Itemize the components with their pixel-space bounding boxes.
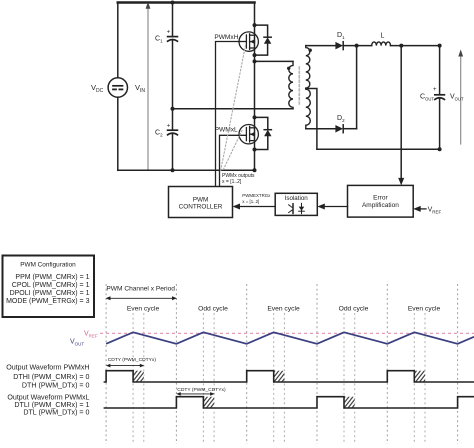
node Cout top junction <box>438 44 442 48</box>
svg-text:C1: C1 <box>155 36 163 44</box>
wire L to Cout <box>391 45 440 47</box>
node PWMxH drain junction <box>253 23 257 27</box>
waveform VOUT triangle (blue) <box>106 332 474 344</box>
node bottom-cap junction <box>171 168 175 172</box>
svg-text:x = [1..2]: x = [1..2] <box>242 199 259 204</box>
svg-text:VDC: VDC <box>91 83 104 94</box>
svg-text:COUT: COUT <box>420 94 434 102</box>
node top-cap junction <box>171 1 175 5</box>
wire bottom rail <box>118 169 255 171</box>
wire primary bottom to cap midpoint <box>173 108 294 110</box>
svg-text:CONTROLLER: CONTROLLER <box>179 204 223 211</box>
diode body D-H <box>255 25 272 55</box>
wire Cout upper <box>439 46 441 95</box>
wire right rail <box>254 3 256 171</box>
block PWM Configuration <box>3 256 95 318</box>
svg-text:VIN: VIN <box>135 83 145 94</box>
svg-text:MODE (PWM_ETRGx) = 3: MODE (PWM_ETRGx) = 3 <box>6 298 90 305</box>
svg-text:Amplification: Amplification <box>362 202 399 209</box>
svg-text:Odd cycle: Odd cycle <box>339 305 369 312</box>
svg-text:PWMxL: PWMxL <box>215 127 238 134</box>
wire error amp to isolation <box>323 206 348 208</box>
capacitor C2 <box>168 130 178 135</box>
node PWMxL drain junction <box>253 115 257 119</box>
svg-text:PWMEXTRGx: PWMEXTRGx <box>242 193 271 198</box>
line VREF dashed pink <box>100 332 474 334</box>
wire left rail lower (VDC to bottom) <box>117 97 119 170</box>
capacitor C1 <box>168 37 178 42</box>
svg-text:C2: C2 <box>155 130 163 138</box>
svg-text:CDTY (PWM_CDTYx): CDTY (PWM_CDTYx) <box>108 357 157 363</box>
hatch region row1 cycle1 <box>133 371 144 382</box>
capacitor COUT <box>435 95 445 100</box>
wire D1 to L <box>343 45 372 47</box>
callout dotted line lower <box>223 131 243 172</box>
wire between C1 and C2 <box>172 40 174 130</box>
wire isolation to pwm <box>239 206 276 208</box>
svg-text:PWM Channel x Period: PWM Channel x Period <box>106 286 175 293</box>
node feedback junction <box>399 44 403 48</box>
wire feedback to error amp <box>400 46 402 180</box>
node switch node <box>253 59 257 63</box>
svg-text:+: + <box>167 30 171 36</box>
hatch region row2 cycle2 <box>203 397 214 408</box>
transistor Q2 PWMxL mosfet <box>239 125 258 144</box>
svg-text:VOUT: VOUT <box>450 94 464 102</box>
transistor Q1 PWMxH mosfet <box>239 32 258 51</box>
svg-text:D1: D1 <box>337 32 345 40</box>
wire rectifier join vertical <box>356 46 358 129</box>
node capacitor midpoint <box>171 107 175 111</box>
wire C2 to bottom rail <box>172 134 174 171</box>
svg-text:Error: Error <box>373 195 388 202</box>
arrow CDTY row2 <box>178 393 213 395</box>
block PWM CONTROLLER <box>169 187 233 218</box>
wire secondary top to D1 <box>306 45 336 47</box>
voltage source VDC <box>108 78 127 97</box>
arrow CDTY row1 <box>108 365 143 367</box>
waveform PWMxL <box>104 397 474 408</box>
svg-text:DPOLI (PWM_CMRx) = 1: DPOLI (PWM_CMRx) = 1 <box>10 290 90 297</box>
wire switch node to primary <box>255 60 294 62</box>
arrow VOUT (gray) <box>460 55 462 144</box>
callout dotted line upper <box>221 46 246 172</box>
svg-text:x = [1..2]: x = [1..2] <box>222 179 242 185</box>
svg-text:PWM: PWM <box>193 197 209 204</box>
wire left rail upper (VDC to top) <box>117 3 119 78</box>
hatch region row1 cycle3 <box>274 371 285 382</box>
transformer core <box>298 67 300 104</box>
node PWMxH source junction <box>253 53 257 57</box>
waveform PWMxH <box>104 371 474 382</box>
wire VREF input <box>419 208 426 210</box>
wire secondary bottom to D2 <box>306 128 336 130</box>
block Error Amplification <box>348 185 414 217</box>
inductor L <box>372 42 391 46</box>
wire top rail <box>118 1 255 4</box>
grid dashed verticals <box>106 284 458 444</box>
svg-text:CPOL (PWM_CMRx) = 1: CPOL (PWM_CMRx) = 1 <box>12 282 90 289</box>
svg-text:PWMx outputs: PWMx outputs <box>222 173 255 179</box>
svg-text:Odd cycle: Odd cycle <box>198 305 228 312</box>
optocoupler glyph <box>289 203 305 213</box>
svg-text:Even cycle: Even cycle <box>267 305 300 312</box>
node bottom-right junction <box>253 168 257 172</box>
wire output return rail <box>317 148 440 150</box>
node secondary phase dot <box>309 49 312 52</box>
wire PWMxL gate <box>220 135 247 186</box>
svg-text:Isolation: Isolation <box>285 195 309 202</box>
node primary phase dot <box>287 67 290 70</box>
block Isolation <box>275 193 317 215</box>
svg-text:DTH (PWM_DTx) = 0: DTH (PWM_DTx) = 0 <box>22 381 90 389</box>
svg-text:PWM Configuration: PWM Configuration <box>20 261 76 268</box>
node D1 output junction <box>355 44 359 48</box>
svg-text:Output Waveform PWMxH: Output Waveform PWMxH <box>6 363 89 371</box>
svg-text:VOUT: VOUT <box>70 339 84 347</box>
svg-text:PPM (PWM_CMRx) = 1: PPM (PWM_CMRx) = 1 <box>15 274 89 281</box>
wire capacitor branch upper <box>172 3 174 37</box>
transformer T1 secondary winding <box>306 46 311 129</box>
wire PWMxH gate <box>216 42 241 187</box>
svg-text:D2: D2 <box>337 115 345 123</box>
diode D2 <box>335 125 343 133</box>
wire secondary tap <box>306 89 317 150</box>
hatch region row2 cycle4 <box>344 397 355 408</box>
svg-text:VREF: VREF <box>84 331 98 339</box>
svg-text:DTL (PWM_DTx) = 0: DTL (PWM_DTx) = 0 <box>23 408 89 416</box>
node Cout bottom junction <box>438 147 442 151</box>
svg-text:L: L <box>381 33 385 40</box>
svg-text:Even cycle: Even cycle <box>408 305 441 312</box>
svg-text:+: + <box>433 87 437 93</box>
svg-text:Even cycle: Even cycle <box>127 305 160 312</box>
svg-text:CDTY (PWM_CDTYx): CDTY (PWM_CDTYx) <box>177 387 226 393</box>
diode body D-L <box>255 117 272 149</box>
diode D1 <box>335 42 343 50</box>
wire D2 to join <box>343 128 356 130</box>
node PWMxL source junction <box>253 148 257 152</box>
wire Cout lower <box>439 98 441 149</box>
svg-text:VREF: VREF <box>428 207 442 215</box>
svg-text:DTHI (PWM_CMRx) = 0: DTHI (PWM_CMRx) = 0 <box>13 373 89 381</box>
arrow VIN (gray) <box>147 7 149 170</box>
svg-text:+: + <box>167 123 171 129</box>
arrow period span <box>107 297 176 299</box>
svg-text:PWMxH: PWMxH <box>214 34 238 41</box>
hatch region row1 cycle5 <box>414 371 425 382</box>
transformer T1 primary winding <box>289 61 293 108</box>
